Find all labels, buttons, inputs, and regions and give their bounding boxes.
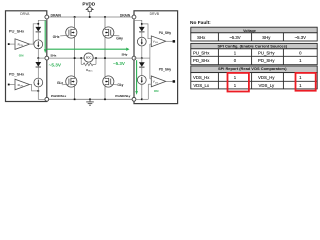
wire DRAIN node to PU_SHy chain (134, 19, 142, 27)
svg-text:SHy: SHy (121, 53, 127, 57)
motor BDC (84, 53, 93, 62)
svg-text:PD_SHy: PD_SHy (258, 58, 275, 63)
current source I_PU_SHy (137, 37, 146, 46)
svg-text:ON: ON (154, 89, 159, 93)
svg-text:PVDD: PVDD (82, 1, 95, 6)
current source I_PD_SHx (34, 78, 43, 87)
svg-text:GLx: GLx (57, 81, 63, 85)
junction: GHx source / GLx drain on SH rail (74, 57, 76, 59)
PGND rail wire (47, 98, 134, 100)
wire PD chain down to PGND/SLx node (38, 87, 45, 99)
SH phase rail wire (SHx to SHy through motor) (47, 57, 134, 59)
svg-text:DRAIN: DRAIN (51, 13, 62, 17)
SHx pin node (45, 53, 57, 60)
wire junction to VDS_Hy comparator (142, 24, 152, 39)
svg-text:SHy: SHy (262, 35, 271, 40)
gate driver block DRVB (134, 11, 178, 104)
junction: PVDD stem on rail (89, 16, 91, 18)
SPI config data rows (191, 49, 317, 65)
svg-text:PU_SHx: PU_SHx (193, 51, 210, 56)
ground symbol (86, 99, 94, 105)
svg-text:VDS_Ly: VDS_Ly (258, 83, 274, 88)
svg-text:~5.3V: ~5.3V (229, 35, 240, 40)
SHy internal wire (134, 57, 150, 59)
junction: GLx source on PGND rail (74, 98, 76, 100)
current source I_PU_SHx (34, 40, 43, 49)
SPI config table header (191, 43, 317, 48)
voltage table header (191, 27, 317, 33)
red highlight box around VDS_Hy/VDS_Ly values (296, 73, 316, 91)
svg-text:~5.3V: ~5.3V (49, 63, 62, 68)
low-side MOSFET GLx (57, 58, 77, 99)
svg-text:~5.3V: ~5.3V (295, 35, 306, 40)
svg-text:BDC: BDC (86, 56, 92, 60)
DRAIN pin node of DRVA (45, 13, 62, 19)
svg-text:SPI Config. (Enable Current So: SPI Config. (Enable Current Sources) (218, 44, 288, 49)
SHx internal wire (38, 57, 45, 59)
svg-text:GHx: GHx (53, 35, 60, 39)
SPI report table header (191, 66, 317, 73)
wire from PU driver output up to diode column (30, 24, 39, 44)
svg-text:PD_SHy: PD_SHy (159, 68, 172, 72)
wire current source to SHx (37, 49, 39, 58)
body diode of PD_SHx (35, 62, 41, 78)
svg-text:VDS_Hx: VDS_Hx (193, 75, 210, 80)
wire from DRAIN node down to PU chain (38, 19, 47, 27)
SPI report data rows (191, 73, 317, 89)
svg-text:PU_SHy: PU_SHy (258, 51, 275, 56)
junction: GLy source on PGND rail (104, 98, 106, 100)
junction on SHy wire (141, 57, 143, 59)
svg-text:PGND/SLy: PGND/SLy (115, 94, 130, 98)
voltage table data row (191, 33, 317, 41)
svg-text:PD_SHx: PD_SHx (9, 71, 24, 76)
junction below PD current source (37, 90, 39, 92)
red highlight box around VDS_Hx/VDS_Lx values (228, 73, 249, 92)
junction: resistor left on SH rail (80, 57, 82, 59)
svg-text:GLy: GLy (117, 83, 123, 87)
svg-text:VDS_Lx: VDS_Lx (193, 83, 210, 88)
svg-text:SPI Report (Read V DS Comparat: SPI Report (Read V DS Comparators) (218, 66, 287, 71)
svg-text:DRAIN: DRAIN (120, 13, 131, 17)
junction: GHx drain on PVDD rail (74, 16, 76, 18)
svg-text:PU_SHy: PU_SHy (159, 31, 172, 35)
PGND internal wire to comparator input (142, 98, 149, 100)
comparator VDS_Hy (150, 36, 175, 58)
junction: GHy drain on PVDD rail (104, 16, 106, 18)
gate driver block DRVA (6, 11, 47, 102)
svg-text:BDC: BDC (88, 70, 93, 72)
low-side MOSFET GLy (103, 58, 124, 99)
junction: ground stem on PGND rail (89, 98, 91, 100)
high-side MOSFET GHy (103, 17, 123, 58)
green current flow: SHx to SHy arrow (47, 48, 130, 51)
resistor R_BDC parallel to motor (81, 58, 96, 72)
PGND/SLy pin node (115, 94, 136, 101)
svg-text:GHy: GHy (116, 37, 123, 41)
svg-text:ON: ON (19, 53, 24, 57)
PVDD symbol (82, 1, 95, 17)
wire from PD driver output to chain (30, 85, 39, 91)
junction on SHx wire (37, 57, 39, 59)
junction on PGND internal wire (141, 98, 143, 100)
current source I_PD_SHy (137, 76, 146, 85)
svg-text:DRVA: DRVA (20, 12, 30, 16)
svg-text:VDS_Hy: VDS_Hy (258, 75, 275, 80)
junction on PU chain (37, 23, 39, 25)
PVDD supply rail wire (47, 16, 134, 18)
SHy pin node (121, 53, 135, 60)
wire SHx down to PD diode (37, 58, 39, 62)
svg-text:PU_SHx: PU_SHx (9, 29, 24, 34)
junction: GHy source / GLy drain on SH rail (104, 57, 106, 59)
svg-text:SHx: SHx (50, 53, 56, 57)
body diode of PD_SHy (139, 62, 145, 75)
wire PU_SHy source down to SHy (141, 46, 143, 58)
svg-text:~5.3V: ~5.3V (113, 61, 125, 66)
green current flow: DRAIN down inside DRVA (44, 21, 47, 54)
body diode of PU_SHx (35, 27, 41, 40)
pull-down driver buffer (R_ON) (8, 79, 30, 90)
PGND/SLx pin node (45, 94, 67, 101)
svg-text:No Fault:: No Fault: (190, 20, 211, 26)
DRAIN pin node of DRVB (120, 13, 136, 19)
svg-text:DRVB: DRVB (150, 12, 160, 16)
junction on PU_SHy chain (141, 23, 143, 25)
green current flow: SHy down to PGND inside DRVB (135, 60, 138, 95)
wire PD_SHy down to PGND/SLy node (136, 84, 142, 99)
body diode of PU_SHy (139, 27, 145, 37)
svg-text:SHx: SHx (197, 35, 206, 40)
svg-text:Voltage: Voltage (243, 29, 256, 33)
svg-text:PGND/SLx: PGND/SLx (51, 94, 67, 98)
svg-text:PD_SHx: PD_SHx (193, 58, 210, 63)
comparator VDS_Ly (148, 58, 175, 99)
high-side MOSFET GHx (53, 17, 77, 58)
pull-up driver buffer (R_ON) (8, 39, 30, 50)
wire SHy down to PD_SHy diode (141, 58, 143, 64)
junction: resistor right on SH rail (95, 57, 97, 59)
